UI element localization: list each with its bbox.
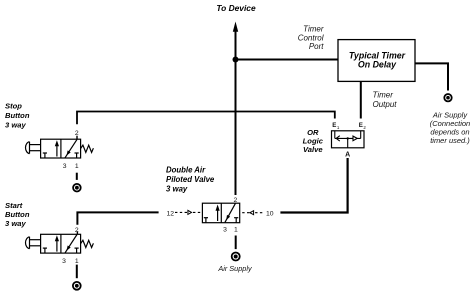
svg-text:Air Supply: Air Supply — [432, 110, 468, 119]
svg-text:Air Supply: Air Supply — [217, 264, 253, 273]
wire: stop valve port 1 to air supply — [76, 173, 78, 180]
air supply symbol (stop valve) — [73, 184, 81, 192]
svg-text:3 way: 3 way — [5, 219, 26, 228]
svg-text:Start: Start — [5, 201, 23, 210]
pilot line 10 (dashed, valve side) — [242, 212, 249, 214]
valve V1 body — [41, 139, 81, 158]
svg-text:Stop: Stop — [5, 102, 22, 111]
valve V1 blocked port left — [44, 153, 46, 158]
valve V3 body — [41, 234, 81, 253]
valve V3 push button rod — [30, 239, 41, 241]
OR valve inlet drop E2 — [360, 131, 362, 139]
svg-text:Button: Button — [5, 210, 30, 219]
pilot arrow 12 — [188, 210, 192, 214]
valve V2 divider — [220, 203, 222, 223]
valve V3: Start Button 3 way — [25, 234, 93, 253]
valve V3 blocked port 1 — [76, 248, 78, 253]
svg-text:OR: OR — [307, 128, 319, 137]
svg-text:E: E — [359, 122, 363, 129]
svg-text:Double Air: Double Air — [166, 166, 206, 175]
svg-text:Logic: Logic — [303, 137, 324, 146]
svg-text:12: 12 — [167, 210, 175, 217]
pilot line 12 (dashed, valve side) — [193, 211, 202, 213]
wire: stop valve port 2 to OR valve E1 — [77, 112, 335, 125]
valve V2: Double Air Piloted 3 way — [202, 203, 239, 223]
valve V3 blocked port left — [44, 248, 46, 253]
svg-text:Button: Button — [5, 111, 30, 120]
svg-text:2: 2 — [75, 130, 79, 137]
valve V1: Stop Button 3 way — [25, 139, 93, 158]
wire: middle valve port 1 to air supply — [235, 236, 237, 250]
svg-text:3: 3 — [223, 227, 227, 234]
valve V3 return spring — [81, 240, 94, 247]
pilot line 12 (dashed, label side) — [175, 211, 187, 213]
wire: OR valve output A to pilot 10 — [280, 158, 347, 213]
wire: timer output — [360, 81, 362, 118]
OR valve right check arrow — [353, 136, 357, 141]
timer box: Typical Timer On Delay — [338, 40, 415, 82]
valve V3 divider — [60, 234, 62, 253]
valve V1 diagonal flow (right box) — [65, 139, 77, 157]
svg-text:Valve: Valve — [303, 145, 323, 154]
svg-text:A: A — [345, 152, 350, 159]
OR logic (shuttle) valve body — [332, 131, 365, 148]
svg-text:Timer: Timer — [373, 90, 394, 99]
wire: stop valve port 2 stub — [76, 136, 78, 140]
valve V2 blocked port 1 — [235, 218, 237, 223]
svg-text:2: 2 — [75, 227, 79, 234]
svg-text:10: 10 — [266, 210, 274, 217]
to-device arrowhead — [233, 22, 238, 32]
pilot arrow 10 — [250, 211, 254, 215]
svg-text:Output: Output — [373, 100, 398, 109]
svg-text:Port: Port — [309, 42, 324, 51]
valve V3 push button cap — [25, 237, 29, 249]
valve V3 diagonal flow (right box) — [65, 235, 77, 253]
valve V2 flow arrow (left box) — [217, 210, 219, 221]
svg-text:timer used.): timer used.) — [430, 136, 470, 145]
wire: start valve port 2 stub — [76, 231, 78, 234]
svg-text:To Device: To Device — [216, 3, 256, 13]
svg-text:3 way: 3 way — [166, 184, 188, 193]
OR valve left check arrow — [336, 136, 340, 141]
valve V1 blocked port 1 — [76, 153, 78, 158]
svg-text:1: 1 — [75, 258, 79, 265]
OR valve inlet drop E1 — [334, 131, 336, 139]
wire: junction to timer control port — [236, 59, 339, 61]
OR valve crossbar — [335, 137, 361, 139]
air supply symbol (middle valve) — [232, 253, 240, 261]
valve V1 divider — [60, 139, 62, 158]
svg-text:On Delay: On Delay — [358, 59, 397, 69]
valve V1 push button cap — [25, 142, 29, 154]
svg-text:Piloted Valve: Piloted Valve — [166, 175, 215, 184]
svg-text:1: 1 — [234, 227, 238, 234]
svg-text:1: 1 — [75, 163, 79, 170]
wire: timer to right air supply — [415, 63, 448, 90]
wire: main vertical line to device — [235, 31, 237, 196]
valve V1 flow arrow (left box) — [56, 146, 58, 157]
svg-text:3: 3 — [62, 258, 66, 265]
OR valve outlet drop — [347, 138, 349, 147]
valve V3 flow arrow (left box) — [56, 241, 58, 252]
wire: start valve port 1 to air supply — [76, 265, 78, 279]
valve V1 push button rod — [30, 144, 41, 146]
air supply symbol (right, timer) — [444, 94, 451, 101]
svg-text:3: 3 — [63, 163, 67, 170]
valve V2 blocked port left — [205, 218, 207, 223]
svg-text:E: E — [332, 122, 336, 129]
wire: start valve port 2 to pilot 12 — [77, 212, 158, 224]
valve V1 return spring — [81, 145, 94, 152]
svg-text:Control: Control — [298, 33, 324, 42]
OR valve centre junction — [347, 137, 349, 139]
air supply symbol (start valve) — [73, 282, 81, 290]
pilot line 10 (dashed, label side) — [255, 212, 262, 214]
junction: main line to timer control — [233, 57, 239, 63]
valve V2 diagonal flow (right box) — [225, 203, 236, 222]
svg-text:Timer: Timer — [303, 24, 324, 33]
svg-text:3 way: 3 way — [5, 121, 26, 130]
valve V2 body — [202, 203, 239, 223]
